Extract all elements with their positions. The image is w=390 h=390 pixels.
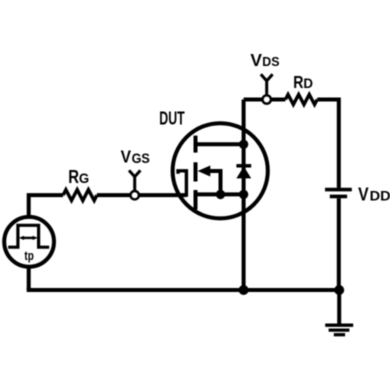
transistor DUT: drain stub [196, 142, 244, 146]
wire: drain vertical [242, 100, 246, 145]
wire: diode vertical inside DUT [242, 144, 246, 194]
node VGS terminal circle [131, 191, 139, 199]
svg-text:GS: GS [132, 151, 150, 166]
svg-text:R: R [68, 166, 79, 187]
pulse source tp: body circle [4, 217, 54, 267]
svg-text:V: V [358, 184, 369, 204]
wire: RD to VDD branch [317, 100, 339, 188]
svg-text:tp: tp [24, 249, 34, 263]
junction dot: body-source node [216, 190, 225, 199]
ground symbol bar 1 [325, 324, 353, 327]
transistor DUT: body diode triangle [236, 166, 251, 178]
junction dot: drain node [239, 140, 248, 149]
svg-text:V: V [121, 147, 132, 167]
resistor RD [285, 95, 317, 105]
svg-text:V: V [250, 50, 262, 70]
svg-text:DUT: DUT [159, 109, 184, 129]
svg-text:DD: DD [370, 189, 390, 204]
junction dot: source-diode node [239, 190, 248, 199]
transistor DUT: channel body segment [194, 162, 198, 181]
node VGS terminal arrow [129, 170, 140, 191]
wire: pulse source bottom to rail [27, 266, 31, 290]
pulse source tp: width arrow left head [19, 236, 24, 240]
junction dot: source to bottom rail [239, 285, 249, 295]
wire: RG to gate of DUT [97, 193, 186, 197]
ground symbol bar 2 [329, 328, 350, 331]
wire: source vertical to bottom rail [242, 194, 246, 290]
transistor DUT: body diode cathode bar [236, 164, 251, 168]
svg-text:DS: DS [262, 54, 280, 69]
wire: bottom rail [27, 288, 340, 292]
transistor DUT: source stub [196, 192, 244, 196]
transistor DUT: body arrow line [205, 171, 221, 194]
transistor DUT: channel drain segment [194, 136, 198, 153]
battery VDD positive plate [325, 188, 352, 192]
svg-text:D: D [303, 76, 313, 91]
transistor DUT: gate electrode [178, 171, 186, 197]
node VDS terminal circle [263, 95, 271, 103]
transistor DUT: body circle [173, 123, 268, 218]
wire: bottom rail to ground [337, 290, 341, 325]
ground symbol bar 3 [334, 333, 345, 336]
wire: VDD to bottom rail [337, 198, 341, 290]
transistor DUT: channel source segment [194, 190, 198, 210]
transistor DUT: body arrowhead [198, 166, 211, 177]
resistor RG [63, 190, 97, 201]
wire: pulse source top to RG [29, 195, 63, 217]
battery VDD negative plate [330, 195, 347, 199]
svg-text:R: R [293, 72, 303, 92]
pulse source tp: pulse waveform [8, 225, 49, 247]
pulse source tp: width arrow right head [33, 236, 38, 240]
svg-text:G: G [79, 170, 89, 186]
junction dot: bottom right corner [334, 285, 344, 295]
wire: top rail drain corner to RD [244, 98, 286, 102]
pulse source tp: width arrow line [22, 237, 35, 239]
node VDS terminal arrow [261, 74, 273, 94]
